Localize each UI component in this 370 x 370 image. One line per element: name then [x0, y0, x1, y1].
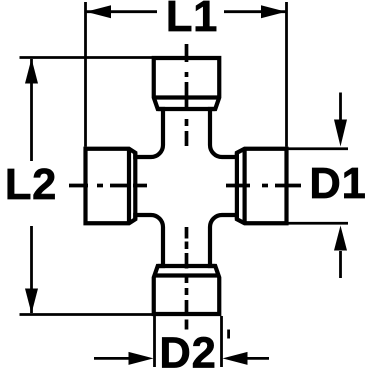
- L1 right arrow: [261, 5, 286, 18]
- horizontal centerline left: [69, 184, 88, 188]
- svg-text:D2: D2: [159, 330, 216, 370]
- top trunnion end edge: [158, 107, 216, 111]
- L1 right extension line: [285, 2, 288, 147]
- right trunnion end edge: [235, 153, 239, 220]
- bottom trunnion end edge: [158, 264, 216, 268]
- L2 bottom extension line: [20, 313, 154, 316]
- D2 right arrow tail: [245, 357, 269, 360]
- D2 left extension line: [153, 316, 156, 367]
- dimension D2: [94, 316, 269, 367]
- D1 bottom arrow: [334, 226, 347, 251]
- svg-text:D1: D1: [309, 160, 366, 208]
- D2 right arrow: [223, 352, 248, 365]
- top trunnion chamfer line: [154, 95, 220, 99]
- D1 top extension line: [288, 147, 348, 150]
- horizontal centerline right: [226, 184, 250, 188]
- D1 top arrow tail: [339, 93, 342, 121]
- D1 bottom extension line: [288, 222, 348, 225]
- D2 left arrow tail: [94, 357, 132, 360]
- L1 dimension line right segment: [224, 10, 286, 13]
- L1 left extension line: [84, 2, 87, 147]
- L2 dimension line upper segment: [30, 59, 33, 161]
- L2 dimension line lower segment: [30, 226, 33, 313]
- L2 bottom arrow: [25, 289, 38, 314]
- svg-text:L1: L1: [166, 0, 218, 41]
- dimension D1: [288, 93, 348, 279]
- L2 top extension line: [20, 56, 154, 59]
- D2 left arrow: [129, 352, 154, 365]
- centerlines: [69, 44, 301, 330]
- D2 right extension line: [220, 316, 223, 367]
- left trunnion end edge: [133, 153, 137, 220]
- L1 dimension line left segment: [86, 10, 157, 13]
- dimension L2: [20, 58, 154, 315]
- dimension L1: [86, 2, 287, 147]
- stray scan mark near D2 right extension: [227, 330, 230, 339]
- left trunnion chamfer line: [127, 149, 131, 224]
- vertical centerline upper: [185, 44, 189, 62]
- D1 bottom arrow tail: [339, 251, 342, 278]
- svg-text:L2: L2: [5, 161, 57, 209]
- L2 top arrow: [25, 59, 38, 84]
- D1 top arrow: [334, 120, 347, 147]
- vertical centerline lower: [185, 227, 189, 239]
- L1 left arrow: [86, 5, 111, 18]
- bottom trunnion chamfer line: [154, 273, 220, 277]
- universal joint cross body outline: [86, 58, 287, 314]
- right trunnion chamfer line: [243, 149, 247, 224]
- cross silhouette: [86, 58, 287, 314]
